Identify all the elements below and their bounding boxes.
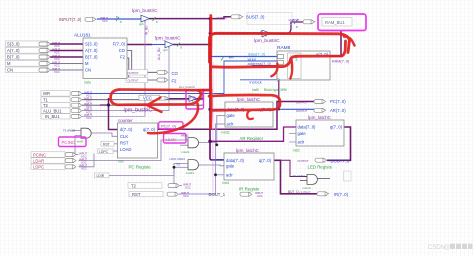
watermark CSDN	[428, 244, 473, 251]
svg-text:gate: gate	[298, 131, 307, 136]
svg-text:VCC: VCC	[81, 167, 87, 171]
PC register U-counter	[118, 118, 158, 170]
wire T2 pin riser	[174, 167, 182, 185]
magenta annotation box PC_BU	[186, 90, 204, 109]
wire AND4 output	[317, 178, 330, 180]
output pin BUS(7..0)	[217, 13, 293, 25]
svg-text:S(3..0): S(3..0)	[7, 42, 20, 47]
wire LDAR to AND1	[79, 140, 189, 161]
svg-text:inst21: inst21	[182, 150, 190, 154]
output pin CO	[126, 70, 179, 76]
svg-text:CO: CO	[119, 48, 126, 53]
svg-text:IR Registe: IR Registe	[239, 186, 260, 191]
svg-text:q(7..0): q(7..0)	[259, 158, 272, 163]
AND gate G4 t3	[293, 174, 318, 190]
svg-text:AR Register: AR Register	[240, 136, 264, 141]
AND gate G0 pcinc	[63, 128, 91, 143]
PINS-LAYER	[6, 13, 353, 199]
svg-text:B(7..0): B(7..0)	[85, 55, 98, 60]
wire trunk to LED data	[210, 127, 296, 141]
svg-text:IR(7..0): IR(7..0)	[334, 192, 349, 197]
svg-text:lpm_bustriC: lpm_bustriC	[254, 38, 280, 44]
svg-text:PCINC: PCINC	[33, 152, 46, 157]
svg-text:data(7..0): data(7..0)	[298, 125, 317, 130]
svg-text:LDIN AND2: LDIN AND2	[170, 157, 186, 161]
svg-text:A(7..0): A(7..0)	[7, 48, 20, 53]
IR register U-lpm_latchC3	[223, 148, 275, 191]
VCC source symbol	[139, 95, 169, 100]
wire F2 to output pin	[127, 58, 157, 80]
small box right of AND4	[344, 171, 352, 181]
svg-text:RAM_BU1: RAM_BU1	[325, 20, 345, 25]
AR register U-lpm_latchC	[222, 97, 274, 141]
svg-text:inst01: inst01	[186, 171, 194, 175]
svg-text:ALU_BU: ALU_BU	[157, 47, 161, 60]
svg-text:T2: T2	[176, 162, 180, 166]
svg-text:CSDN: CSDN	[428, 245, 445, 251]
wire T2 mid	[82, 104, 203, 106]
svg-text:VCC: VCC	[54, 57, 60, 61]
svg-text:gate: gate	[227, 113, 236, 118]
svg-text:LDIR: LDIR	[97, 174, 105, 178]
output pin PC(7..0)	[296, 99, 346, 104]
wire WR to RAM wren	[82, 61, 277, 94]
tri-state buffer U3 lpm_bustriC ram-in	[254, 30, 280, 44]
svg-text:DOUT_1: DOUT_1	[209, 192, 226, 197]
svg-text:tgrb: tgrb	[163, 48, 168, 52]
svg-text:@: @	[444, 245, 450, 251]
label box LDPC near PC	[98, 149, 114, 154]
green bus width ticks	[116, 17, 262, 61]
wire RST to IR aclr	[216, 174, 225, 176]
svg-text:LDPC: LDPC	[33, 165, 44, 170]
svg-text:lpm_latchC: lpm_latchC	[236, 148, 260, 153]
output pin F2	[126, 78, 177, 84]
svg-text:VCC: VCC	[54, 44, 60, 48]
svg-text:VCC: VCC	[185, 185, 191, 189]
red trace through RAM to riser hook	[283, 41, 346, 67]
svg-text:PCINC: PCINC	[62, 140, 76, 145]
svg-text:T1: T1	[43, 97, 49, 102]
label box RST near PC	[101, 142, 114, 147]
red J hook into AR data	[247, 110, 253, 119]
svg-text:M: M	[7, 61, 11, 66]
svg-text:d(7..0): d(7..0)	[120, 127, 133, 132]
svg-text:RST: RST	[132, 192, 141, 197]
svg-text:LDPC: LDPC	[99, 150, 109, 154]
label box LDIR	[95, 173, 110, 178]
svg-text:VCC: VCC	[257, 194, 263, 198]
input pin S(3..0)	[6, 41, 61, 48]
red trunk line	[209, 16, 212, 129]
ANNOT-LAYER	[59, 14, 367, 147]
input pin B(7..0)	[6, 54, 61, 61]
svg-text:DOUT7..0: DOUT7..0	[331, 158, 351, 163]
wire inclock to RAM	[240, 79, 277, 81]
input pin A(7..0)	[6, 47, 61, 54]
svg-text:LOAD: LOAD	[120, 147, 131, 152]
RAM U-RAM8	[252, 45, 330, 92]
svg-text:OUTPUT: OUTPUT	[128, 79, 139, 83]
wire IR q to IR(7..0) output pin	[274, 160, 317, 194]
svg-text:OUTPUT: OUTPUT	[300, 190, 311, 194]
wire LDPC label to PC LOAD	[113, 150, 118, 152]
wire pink parallel line	[212, 62, 214, 192]
wire trunk to AR data	[210, 108, 225, 110]
input pin T2	[41, 102, 92, 109]
svg-text:WR: WR	[229, 56, 235, 60]
svg-text:inst13: inst13	[303, 186, 311, 190]
svg-text:T1 AND2: T1 AND2	[63, 128, 76, 132]
wire buffer U3 output to RAM_BU1 pin	[271, 22, 303, 33]
WIRES-LAYER	[50, 17, 351, 194]
BLOCKS-LAYER	[74, 33, 351, 192]
magenta annotation box around RAM_BU1	[318, 14, 366, 31]
svg-text:PC(7..0): PC(7..0)	[330, 99, 346, 104]
junction dots	[107, 17, 280, 176]
wire AND1 out to AR gate	[196, 116, 225, 143]
wire PCINC riser to AND0	[75, 136, 81, 155]
svg-text:inst2: inst2	[293, 149, 300, 153]
red hook at top of RAM riser	[344, 37, 355, 46]
svg-text:OUTPUT: OUTPUT	[296, 100, 307, 104]
wire RST violet riser	[179, 124, 225, 194]
svg-text:PC Registe: PC Registe	[129, 165, 152, 170]
wire IN_BU enable riser	[82, 22, 145, 117]
svg-text:WR: WR	[43, 91, 50, 96]
svg-text:T3 AND2: T3 AND2	[293, 174, 306, 178]
wire LED gate stub	[289, 133, 296, 135]
ALU U-ALU181	[74, 33, 127, 85]
svg-text:IN_BU: IN_BU	[145, 25, 149, 35]
svg-text:lpm_bustriC: lpm_bustriC	[179, 85, 196, 89]
svg-text:F(7..0): F(7..0)	[113, 42, 126, 47]
svg-text:LDAR: LDAR	[33, 158, 44, 163]
AND gate G2 ldin	[170, 157, 199, 175]
wire AND4 input2 stub	[300, 180, 307, 182]
wire AND0 input1 stub	[72, 130, 81, 132]
svg-text:lpm_latchC: lpm_latchC	[308, 115, 332, 120]
GATES-LAYER	[63, 8, 317, 190]
svg-text:inst1: inst1	[223, 181, 230, 185]
svg-text:T2: T2	[43, 103, 49, 108]
svg-text:insta: insta	[84, 81, 91, 85]
wire AR q to AR(7..0) output pin	[273, 108, 314, 110]
svg-text:BUT_O: BUT_O	[288, 190, 299, 194]
wire M to ALU	[50, 63, 83, 65]
svg-text:OUTPUT: OUTPUT	[298, 159, 309, 163]
svg-text:inst8: inst8	[77, 140, 83, 144]
svg-text:VCC: VCC	[102, 19, 108, 23]
red oval blob around VCC/bustri	[111, 90, 201, 105]
svg-text:inst: inst	[119, 159, 124, 163]
wire INPUT(7..0) to buffer U1	[97, 18, 141, 20]
magenta annotation box PCINC	[59, 137, 87, 147]
wire trunk to buffer U3 input	[210, 32, 262, 34]
output pin DOUT(7..0)	[298, 158, 351, 163]
svg-text:RST: RST	[103, 142, 110, 146]
svg-text:lpm_latchC: lpm_latchC	[237, 97, 261, 102]
svg-text:F2: F2	[172, 79, 178, 84]
wire S(3..0) bus to ALU	[50, 43, 83, 45]
input pin INPUT(7..0)	[59, 15, 118, 23]
svg-text:VCC: VCC	[86, 116, 92, 120]
wire PC d(7..0) drop	[109, 98, 118, 130]
red loop top around RAM area	[210, 33, 350, 62]
svg-text:T2: T2	[131, 183, 137, 188]
svg-text:lpm_bustriC: lpm_bustriC	[155, 36, 181, 42]
wire T1	[82, 99, 204, 101]
svg-text:counter: counter	[118, 118, 133, 123]
svg-text:OUTPUT: OUTPUT	[289, 18, 300, 22]
svg-text:M: M	[85, 61, 89, 66]
input pin ALU_BU1	[41, 108, 92, 115]
input pin LDAR	[31, 157, 87, 164]
input pin PCINC	[31, 151, 87, 158]
svg-text:RAM8: RAM8	[277, 45, 291, 51]
svg-text:IN_BU1: IN_BU1	[45, 114, 60, 119]
svg-text:RAM(7..0): RAM(7..0)	[332, 59, 350, 63]
output pin RAM_BU1	[289, 18, 353, 30]
svg-text:Block type: M9K: Block type: M9K	[264, 88, 288, 92]
input pin T1	[41, 97, 92, 104]
input pin DOUT_1	[209, 191, 264, 198]
wire trunk to RAM data	[210, 56, 277, 58]
wire CN to ALU	[50, 69, 83, 71]
input pin T2 bottom	[128, 182, 191, 189]
wire main bus vertical trunk	[210, 19, 224, 160]
input pin WR	[41, 90, 92, 97]
red arrowhead pointing left	[147, 98, 162, 113]
svg-text:inclock: inclock	[250, 80, 262, 85]
red swoosh over PC label	[148, 104, 198, 134]
svg-text:F2: F2	[120, 55, 126, 60]
red check at address	[271, 64, 277, 77]
svg-text:OUTPUT: OUTPUT	[296, 109, 307, 113]
wire ALU F(7..0) to buffer U2	[127, 44, 152, 46]
svg-text:OUTPUT: OUTPUT	[128, 71, 139, 75]
svg-text:VCC: VCC	[54, 63, 60, 67]
svg-text:PC(7..0): PC(7..0)	[161, 123, 177, 128]
wire RST label to PC RST	[114, 143, 118, 145]
output pin AR(7..0)	[296, 108, 346, 113]
svg-text:A(7..0): A(7..0)	[85, 48, 98, 53]
wire IR q branch to AND4	[274, 160, 307, 176]
svg-text:CO: CO	[172, 71, 179, 76]
svg-text:q(7..0): q(7..0)	[330, 125, 343, 130]
wire LDIR to AND2 via junction	[109, 164, 188, 176]
svg-text:VCC: VCC	[143, 95, 152, 100]
svg-text:AR(7..0): AR(7..0)	[330, 108, 346, 113]
svg-text:lpm_bustriC: lpm_bustriC	[132, 8, 158, 14]
svg-text:CLK: CLK	[120, 134, 128, 139]
wire A(7..0) bus to ALU	[50, 50, 83, 52]
svg-text:S(3..0): S(3..0)	[85, 42, 98, 47]
svg-text:ALU_BU1: ALU_BU1	[43, 108, 62, 113]
svg-text:aclr: aclr	[227, 122, 234, 127]
wire AND1 input2 stub	[180, 144, 188, 146]
TEXT-LAYER	[145, 25, 351, 166]
svg-text:CN: CN	[7, 68, 13, 73]
svg-text:OUTPUT: OUTPUT	[217, 16, 228, 20]
svg-text:tgrb: tgrb	[139, 22, 144, 26]
wire trunk end to IR data	[212, 159, 224, 161]
input pin M	[6, 60, 61, 67]
wire buffer U1 output to bus trunk	[149, 18, 210, 20]
svg-text:RST: RST	[120, 140, 129, 145]
wire address label stub to RAM	[252, 65, 277, 67]
svg-text:LED Registe: LED Registe	[308, 165, 333, 170]
svg-text:LDAR: LDAR	[166, 138, 176, 142]
wire AR q to RAM address riser	[277, 66, 279, 110]
red loop around AR latch top	[209, 95, 280, 110]
wire RAM q riser to top	[330, 30, 341, 56]
svg-text:aclr: aclr	[298, 140, 305, 145]
input pin RST bottom	[129, 191, 189, 198]
red loop bottom edge	[212, 65, 284, 69]
input pin IN_BU1	[41, 113, 92, 120]
svg-text:inst11: inst11	[222, 131, 230, 135]
svg-text:data(7..0): data(7..0)	[226, 158, 245, 163]
red marker strokes	[111, 16, 355, 134]
wire bus trunk to BUS(7..0) output pin	[210, 17, 231, 19]
svg-text:INPUT(7..0): INPUT(7..0)	[59, 17, 82, 22]
tri-state buffer U2 lpm_bustriC alu-out	[155, 36, 181, 52]
wire B(7..0) bus to ALU	[50, 56, 83, 58]
magenta annotation box PC(7..0)	[159, 122, 183, 129]
AND gate G1 ldar	[181, 134, 198, 154]
output pin IR(7..0)	[288, 190, 349, 197]
wire PC q to PC(7..0) output pin	[158, 102, 315, 130]
wire LDPC to label	[79, 154, 95, 167]
svg-text:inst5: inst5	[252, 88, 259, 92]
svg-text:aclr: aclr	[226, 173, 233, 178]
svg-text:lpm_bustriC: lpm_bustriC	[124, 108, 153, 114]
svg-text:B(7..0): B(7..0)	[7, 55, 20, 60]
input pin LDPC	[31, 164, 87, 171]
svg-text:ALU181: ALU181	[74, 33, 91, 38]
svg-text:VCC: VCC	[54, 70, 60, 74]
wire buffer U5 output to trunk	[197, 90, 210, 99]
red blob link to trunk	[196, 89, 211, 92]
svg-text:BUS(7..0): BUS(7..0)	[246, 14, 265, 19]
input pin CN	[6, 67, 61, 74]
svg-text:VCC: VCC	[183, 194, 189, 198]
wire ALU_BU enable riser	[82, 47, 169, 111]
wire CO to output pin	[127, 51, 157, 73]
wire LED aclr stub	[289, 141, 296, 143]
wire LED q to DOUT(7..0) pin	[327, 127, 351, 160]
LED register U-lpm_latchC2	[293, 115, 344, 170]
tri-state buffer U1 lpm_bustriC top	[132, 8, 158, 26]
tri-state buffer U5 lpm_bustriC pc-bu	[124, 85, 198, 114]
wire VCC to buffer U5	[169, 98, 189, 100]
svg-text:gate: gate	[226, 164, 235, 169]
magenta annotation box LDAR	[164, 134, 187, 144]
wire AND2 out to IR gate	[196, 164, 224, 167]
svg-text:q(7..0): q(7..0)	[143, 127, 156, 132]
wire AND0 out to PC CLK	[91, 133, 118, 136]
wire T2 junction to AND2 input	[174, 166, 188, 168]
svg-text:CN: CN	[85, 68, 91, 73]
wire buffer U2 output to bus trunk	[173, 44, 210, 46]
red tail inside RAM	[290, 59, 292, 79]
svg-text:VCC: VCC	[54, 50, 60, 54]
